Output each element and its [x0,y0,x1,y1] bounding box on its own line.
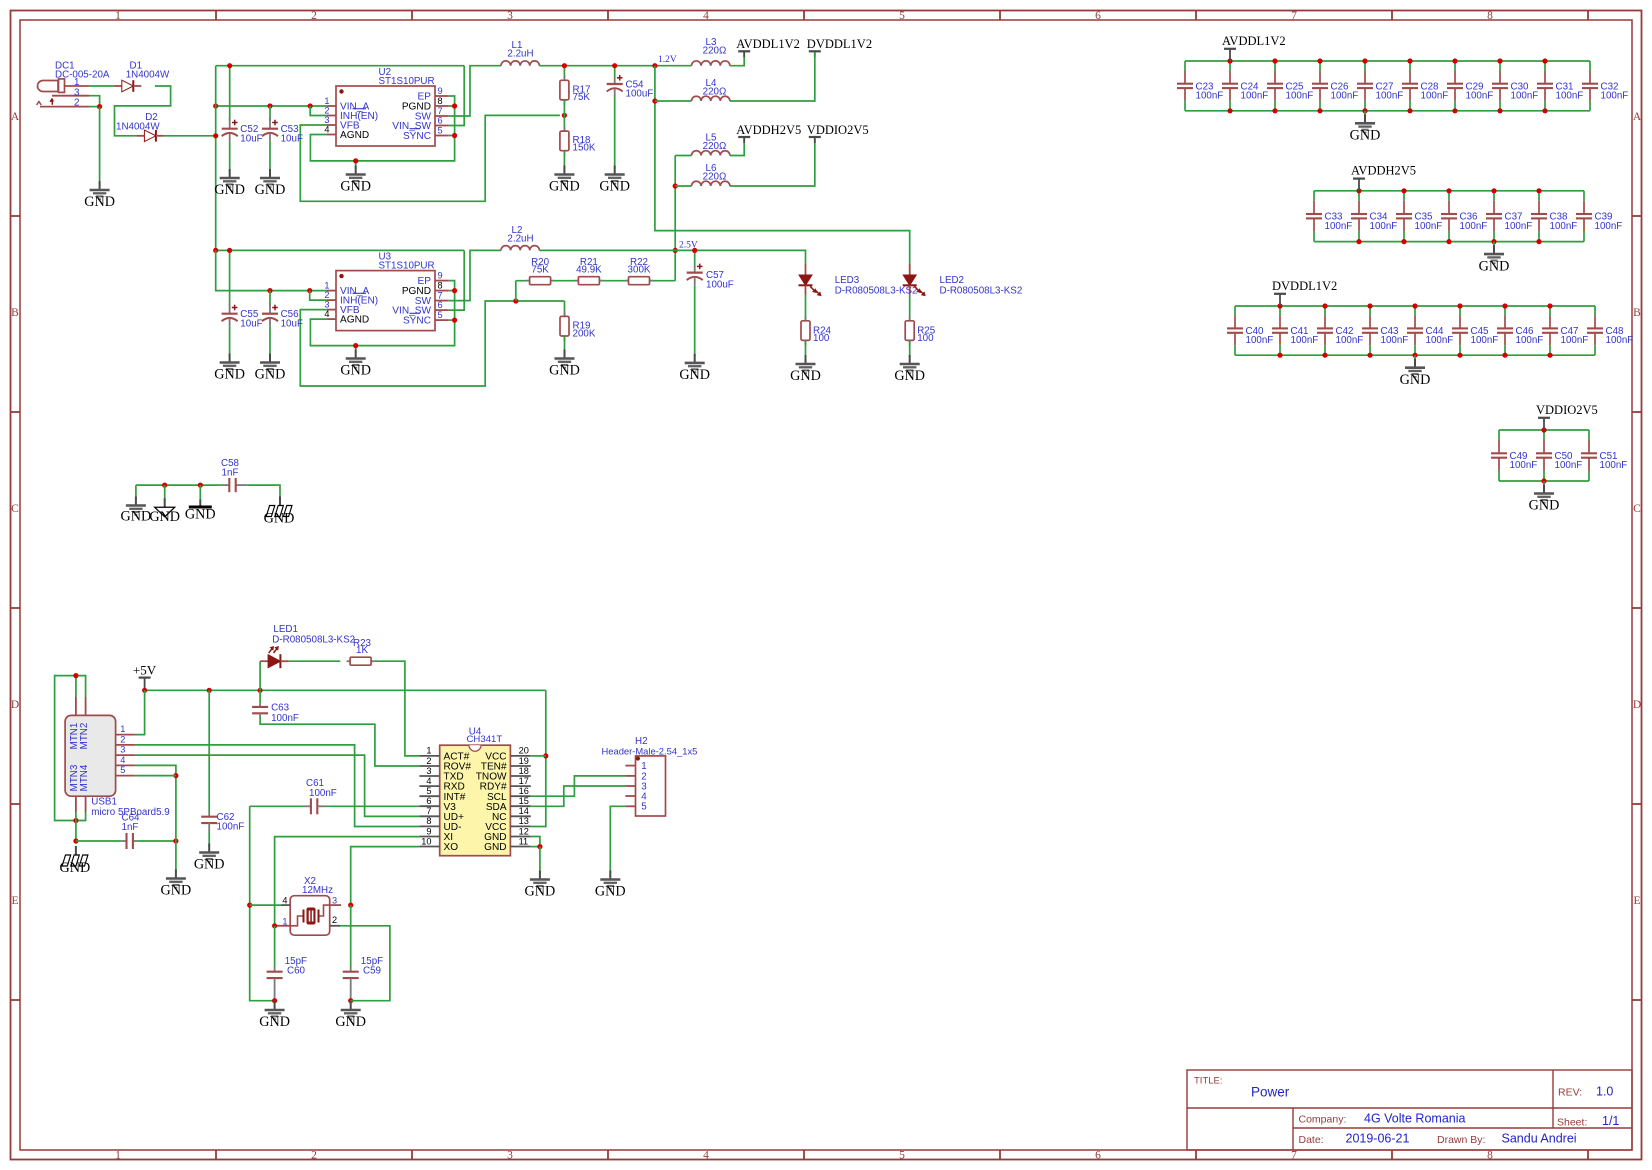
wire [449,319,455,321]
wire [449,290,455,292]
wire [208,690,210,812]
junction [1412,303,1417,308]
resistor R24 [801,316,832,346]
wire [563,151,565,169]
ground (C53) [255,169,286,198]
capacitor C26 100nF [1312,61,1358,111]
svg-text:100: 100 [813,333,830,344]
wire [655,66,910,264]
junction [1362,108,1367,113]
svg-text:10uF: 10uF [281,133,303,144]
svg-text:3: 3 [332,895,337,905]
wire [1314,190,1584,192]
svg-text:100nF: 100nF [1471,335,1499,346]
svg-text:100nF: 100nF [1516,335,1544,346]
wire [90,96,100,107]
junction [1322,353,1327,358]
svg-text:GND: GND [1479,258,1510,274]
svg-text:9: 9 [438,271,443,281]
svg-text:11: 11 [519,836,529,846]
svg-text:GND: GND [194,857,225,873]
wire [135,775,176,777]
wire [164,135,216,137]
junction [1457,353,1462,358]
capacitor C41 100nF [1272,306,1318,355]
svg-text:8: 8 [1487,10,1493,22]
wire [375,661,420,756]
capacitor C53 10uF [262,118,303,172]
svg-text:D: D [11,699,19,711]
svg-text:C: C [1633,503,1641,515]
svg-text:6: 6 [426,796,431,806]
svg-text:MTN4: MTN4 [79,764,90,791]
junction [207,688,212,693]
svg-text:100nF: 100nF [1510,460,1538,471]
power flag AVDDH2V5 [736,123,801,143]
ground (C59) [335,1001,366,1030]
svg-text:100nF: 100nF [1511,91,1539,102]
wire [531,776,626,796]
svg-text:GND: GND [894,368,925,384]
svg-text:GND: GND [60,860,91,876]
inductor L6 220 [692,163,730,186]
ground (R25) [894,355,925,384]
svg-text:1: 1 [426,746,431,756]
junction [1452,58,1457,63]
wire [135,765,176,841]
junction [227,63,232,68]
svg-text:SYNC: SYNC [403,131,431,142]
junction [1272,58,1277,63]
wire [75,812,77,841]
LED LED1 D-R080508L3-KS2 [260,646,289,668]
power flag DVDDL1V2 [807,37,872,57]
svg-text:100nF: 100nF [1561,335,1589,346]
junction [1322,303,1327,308]
wire [216,65,465,67]
svg-text:100uF: 100uF [626,89,654,100]
svg-text:Header-Male-2.54_1x5: Header-Male-2.54_1x5 [602,745,698,756]
svg-text:4: 4 [282,895,287,905]
wire [216,250,327,290]
svg-text:2: 2 [426,756,431,766]
svg-text:1N4004W: 1N4004W [116,121,160,132]
svg-text:GND: GND [1400,372,1431,388]
svg-text:CH341T: CH341T [467,734,503,745]
svg-text:100nF: 100nF [1550,221,1578,232]
capacitor C34 100nF [1351,191,1397,242]
wire [730,62,815,102]
junction [247,903,252,908]
svg-text:220Ω: 220Ω [703,171,727,182]
svg-text:4: 4 [324,309,329,319]
svg-text:6: 6 [438,116,443,126]
wire [539,250,805,264]
svg-text:100nF: 100nF [1595,221,1623,232]
svg-text:GND: GND [121,509,152,525]
signal ground (style 2) [149,498,180,525]
svg-text:DVDDL1V2: DVDDL1V2 [807,37,872,51]
svg-text:1: 1 [115,10,121,22]
power flag DVDDL1V2 [1272,279,1337,306]
wire [449,66,501,116]
capacitor C62 100nF [201,812,244,847]
svg-text:12MHz: 12MHz [302,885,333,896]
svg-text:100nF: 100nF [271,713,299,724]
wire [136,484,221,486]
svg-text:100nF: 100nF [1600,460,1628,471]
svg-text:AVDDL1V2: AVDDL1V2 [1222,34,1286,48]
svg-text:GND: GND [259,1014,290,1030]
ground (R24) [790,355,821,384]
svg-text:4: 4 [703,10,709,22]
junction [213,103,218,108]
resistor R22 [625,257,653,285]
svg-text:19: 19 [519,756,529,766]
svg-text:1nF: 1nF [122,822,139,833]
svg-text:5: 5 [899,10,905,22]
wire [135,745,420,827]
capacitor C56 10uF [262,303,303,357]
wire [539,847,541,874]
junction [308,103,313,108]
capacitor C57 100uF [687,264,734,358]
svg-text:3: 3 [507,10,513,22]
svg-text:GND: GND [335,1014,366,1030]
svg-text:220Ω: 220Ω [703,86,727,97]
svg-text:100nF: 100nF [1505,221,1533,232]
wire [814,52,816,61]
svg-text:1nF: 1nF [222,468,239,479]
chassis ground (USB shell) [60,846,91,876]
svg-text:100nF: 100nF [1415,221,1443,232]
junction [1536,239,1541,244]
wire [250,806,275,1000]
junction [452,288,457,293]
power flag VDDIO2V5 [1536,403,1598,430]
resistor R23 [347,638,375,665]
svg-text:GND: GND [214,182,245,198]
wire [274,1001,276,1004]
junction [267,103,272,108]
ground (AVDDL1V2 bank) [1350,114,1381,143]
wire [76,812,86,821]
capacitor C28 100nF [1402,61,1448,111]
svg-text:9: 9 [438,86,443,96]
svg-text:LED3: LED3 [835,275,860,286]
svg-text:LED1: LED1 [273,624,298,635]
wire [350,1001,352,1004]
svg-text:GND: GND [484,842,506,853]
wire [325,805,419,807]
junction [1542,108,1547,113]
resistor R17 [560,75,591,105]
svg-text:ST1S10PUR: ST1S10PUR [379,76,435,87]
svg-text:1N4004W: 1N4004W [126,70,170,81]
wire [90,85,114,87]
wire [539,65,691,67]
wire [610,806,625,874]
svg-text:13: 13 [519,816,529,826]
svg-text:15: 15 [519,796,529,806]
svg-text:D: D [1633,699,1641,711]
junction [543,753,548,758]
svg-text:100uF: 100uF [706,279,734,290]
junction [1497,58,1502,63]
junction [1227,108,1232,113]
junction [1541,478,1546,483]
svg-text:14: 14 [519,806,529,816]
svg-text:C: C [11,503,19,515]
wire [355,346,357,353]
capacitor C25 100nF [1267,61,1313,111]
svg-text:GND: GND [599,179,630,195]
svg-text:3: 3 [426,766,431,776]
junction [1401,239,1406,244]
svg-text:E: E [1633,895,1640,907]
svg-text:6: 6 [1095,1149,1101,1161]
ground (C62) [194,844,225,873]
power flag +5V [133,662,157,690]
svg-text:4: 4 [120,755,125,765]
svg-text:2.2uH: 2.2uH [507,233,533,244]
junction [348,903,353,908]
ground (U4) [525,871,556,900]
wire [289,660,341,662]
wire [300,115,560,201]
capacitor C58 1nF [221,458,248,492]
wire [675,155,691,157]
svg-text:Sandu Andrei: Sandu Andrei [1502,1132,1577,1146]
junction [272,998,277,1003]
wire [250,805,303,807]
wire [350,905,352,966]
junction [652,98,657,103]
wire [675,185,691,187]
svg-text:100nF: 100nF [1336,335,1364,346]
wire [1499,429,1589,431]
ground (U2 AGND) [340,166,371,195]
wire [1499,480,1589,482]
junction [1457,303,1462,308]
wire [909,340,911,357]
svg-text:AVDDL1V2: AVDDL1V2 [736,37,800,51]
svg-text:6: 6 [1095,10,1101,22]
wire [674,156,676,281]
wire [310,281,454,346]
svg-text:E: E [11,895,18,907]
wire [260,716,419,766]
svg-text:9: 9 [426,826,431,836]
junction [1547,353,1552,358]
svg-text:VDDIO2V5: VDDIO2V5 [807,123,869,137]
junction [1446,239,1451,244]
wire [730,52,744,65]
ground (C54) [599,166,630,195]
junction [1412,353,1417,358]
resistor R19 [560,311,596,341]
ground (AVDDH2V5 bank) [1479,245,1510,274]
capacitor C46 100nF [1497,306,1543,355]
wire [1185,60,1590,62]
ground (C52) [214,169,245,198]
svg-text:4: 4 [324,125,329,135]
connector DC1 DC-005-20A barrel jack [37,60,110,108]
inductor L3 220 [692,37,730,65]
junction [1401,188,1406,193]
connector USB1 micro 5PBoard5.9 [65,697,170,818]
junction [452,103,457,108]
wire [563,66,565,81]
svg-text:1: 1 [115,1149,121,1161]
wire [300,301,564,386]
wire [229,250,231,306]
junction [612,63,617,68]
svg-text:AGND: AGND [340,130,369,141]
junction [227,248,232,253]
junction [1277,303,1282,308]
wire [1364,111,1366,118]
junction [513,298,518,303]
svg-text:GND: GND [255,182,286,198]
svg-text:7: 7 [438,291,443,301]
wire [1493,242,1495,249]
junction [1491,239,1496,244]
wire [1235,354,1595,356]
junction [142,688,147,693]
wire [115,86,171,136]
svg-text:AGND: AGND [340,315,369,326]
svg-text:8: 8 [1487,1149,1493,1161]
wire [199,485,201,501]
wire [164,485,166,501]
title block [1187,1070,1632,1150]
junction [162,483,167,488]
svg-text:2: 2 [332,915,337,925]
junction [562,63,567,68]
svg-text:ST1S10PUR: ST1S10PUR [379,261,435,272]
svg-text:GND: GND [549,179,580,195]
svg-text:1: 1 [282,916,287,926]
inductor L5 220 [692,133,730,156]
svg-text:1.2V: 1.2V [658,55,677,65]
svg-text:3: 3 [324,115,329,125]
wire [135,690,145,734]
wire [909,295,911,321]
svg-text:1: 1 [324,281,329,291]
wire [310,106,326,116]
junction [1277,353,1282,358]
svg-text:100nF: 100nF [217,822,245,833]
IC U4 CH341T [419,726,530,855]
capacitor C42 100nF [1317,306,1363,355]
wire [564,336,566,353]
IC U3 ST1S10PUR [324,251,448,330]
capacitor C39 100nF [1576,191,1622,242]
capacitor C35 100nF [1396,191,1442,242]
svg-text:GND: GND [1529,498,1560,514]
junction [173,838,178,843]
crystal X2 12MHz [277,876,341,935]
junction [562,113,567,118]
junction [258,688,263,693]
wire [135,485,137,500]
junction [307,288,312,293]
junction [673,248,678,253]
wire [516,280,675,282]
wire [215,66,217,251]
junction [1547,303,1552,308]
junction [452,318,457,323]
svg-text:B: B [11,307,19,319]
wire [449,250,464,310]
svg-text:XO: XO [444,842,459,853]
svg-text:5: 5 [899,1149,905,1161]
wire [805,295,807,321]
svg-text:8: 8 [438,96,443,106]
ground (U3 AGND) [340,350,371,379]
svg-text:C60: C60 [287,965,306,976]
wire [515,281,517,301]
wire [1543,481,1545,488]
svg-text:2: 2 [311,10,317,22]
junction [1541,427,1546,432]
svg-text:75K: 75K [573,92,591,103]
junction [1407,108,1412,113]
svg-text:2: 2 [324,290,329,300]
svg-text:100nF: 100nF [1381,335,1409,346]
capacitor C29 100nF [1447,61,1493,111]
svg-text:SYNC: SYNC [403,316,431,327]
junction [1502,303,1507,308]
junction [73,818,78,823]
capacitor C48 100nF [1587,306,1633,355]
capacitor C45 100nF [1452,306,1498,355]
svg-text:18: 18 [519,766,529,776]
wire [805,340,807,357]
svg-text:17: 17 [519,776,529,786]
svg-text:1: 1 [120,724,125,734]
junction [1536,188,1541,193]
junction [1502,353,1507,358]
svg-text:GND: GND [255,367,286,383]
junction [1362,58,1367,63]
resistor R20 [526,257,554,285]
junction [267,288,272,293]
svg-text:GND: GND [84,194,115,210]
svg-text:100nF: 100nF [1370,221,1398,232]
junction [272,923,277,928]
capacitor C54 100uF [607,75,654,169]
ground (C56) [255,354,286,383]
svg-text:5: 5 [438,310,443,320]
junction [353,343,358,348]
ground (C64) [161,870,192,899]
svg-text:3: 3 [507,1149,513,1161]
wire [730,138,815,186]
junction [537,844,542,849]
svg-text:1K: 1K [356,645,368,656]
wire [216,249,465,251]
svg-text:100nF: 100nF [1246,335,1274,346]
junction [1272,108,1277,113]
svg-text:100nF: 100nF [1291,335,1319,346]
inductor L1 2.2uH [501,40,539,65]
wire [694,250,696,266]
junction [1317,58,1322,63]
inductor L2 2.2uH [501,225,539,250]
svg-text:LED2: LED2 [940,275,965,286]
